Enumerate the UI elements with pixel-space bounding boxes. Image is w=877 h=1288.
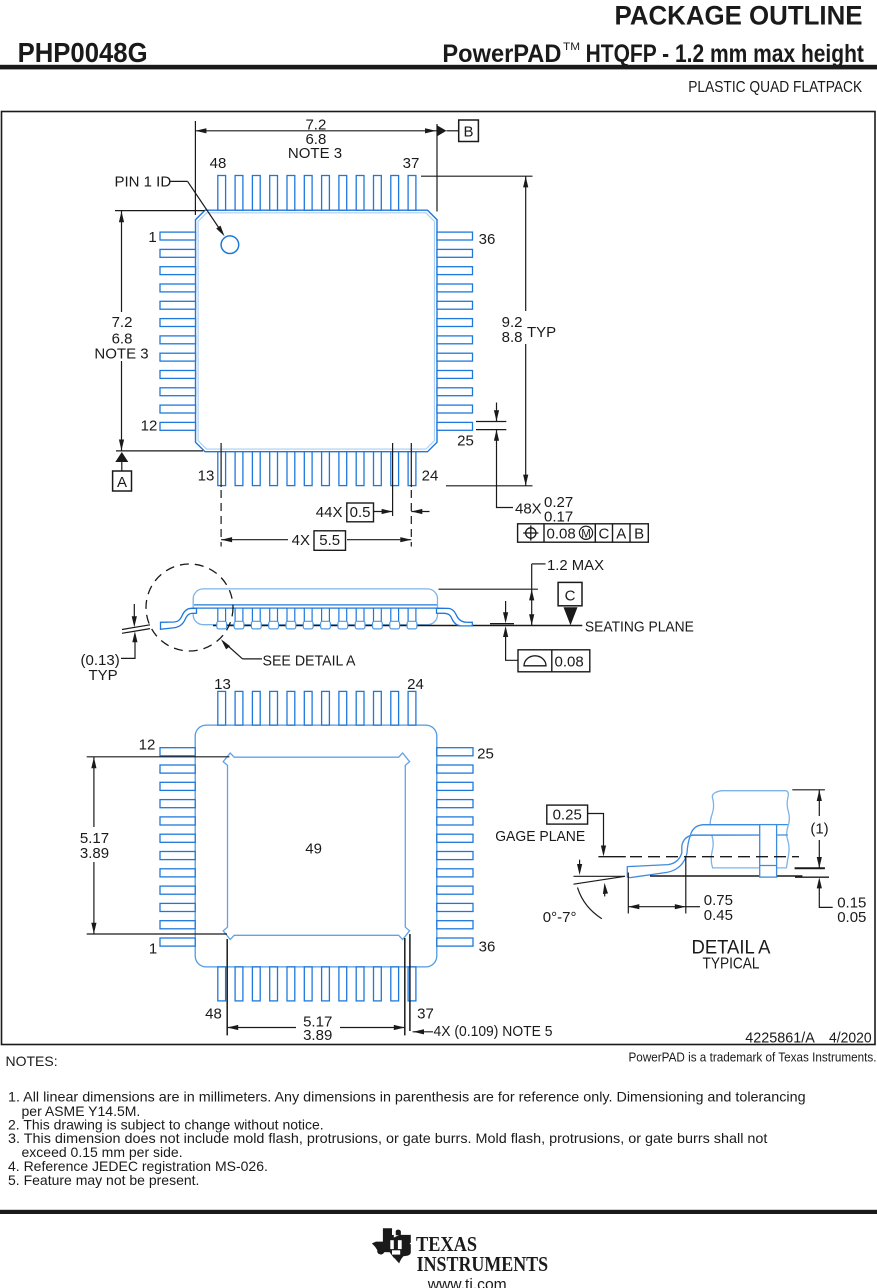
svg-text:12: 12 [141,418,158,435]
svg-text:1: 1 [148,229,156,246]
svg-text:PHP0048G: PHP0048G [18,37,148,68]
svg-text:C: C [598,525,609,542]
svg-text:M: M [581,528,591,540]
svg-text:NOTE 3: NOTE 3 [94,346,148,363]
svg-text:0.5: 0.5 [350,504,371,521]
svg-text:GAGE PLANE: GAGE PLANE [495,828,585,845]
svg-text:PowerPAD: PowerPAD [442,40,561,68]
svg-text:A: A [616,525,626,542]
svg-text:24: 24 [407,676,424,693]
svg-text:TYP: TYP [89,667,118,684]
svg-text:TYP: TYP [527,324,556,341]
svg-text:1: 1 [149,941,157,958]
svg-text:12: 12 [139,737,156,754]
svg-text:www.ti.com: www.ti.com [427,1277,507,1288]
svg-text:13: 13 [198,468,215,485]
svg-text:25: 25 [457,433,474,450]
svg-text:36: 36 [479,231,496,248]
svg-text:SEATING PLANE: SEATING PLANE [585,619,694,636]
svg-text:8.8: 8.8 [502,329,523,346]
svg-text:B: B [634,525,644,542]
svg-text:C: C [565,587,576,604]
svg-text:48: 48 [210,155,227,172]
svg-text:PACKAGE OUTLINE: PACKAGE OUTLINE [615,0,863,30]
svg-text:36: 36 [479,939,496,956]
svg-text:48X: 48X [515,501,542,518]
svg-text:44X: 44X [316,504,343,521]
svg-text:0.45: 0.45 [704,907,733,924]
svg-text:5. Feature may not be present.: 5. Feature may not be present. [8,1172,199,1188]
svg-text:3.89: 3.89 [80,845,109,862]
svg-text:1.2 MAX: 1.2 MAX [547,557,604,574]
svg-text:(1): (1) [810,820,828,837]
svg-text:TM: TM [563,41,580,53]
svg-text:PLASTIC QUAD FLATPACK: PLASTIC QUAD FLATPACK [688,79,863,96]
svg-text:7.2: 7.2 [112,314,133,331]
svg-text:4/2020: 4/2020 [829,1030,872,1047]
svg-text:48: 48 [205,1006,222,1023]
svg-text:PIN 1 ID: PIN 1 ID [115,174,172,191]
svg-text:25: 25 [477,746,494,763]
svg-text:5.5: 5.5 [319,532,340,549]
svg-text:SEE DETAIL A: SEE DETAIL A [263,653,356,670]
svg-text:3.89: 3.89 [303,1027,332,1044]
svg-text:0.05: 0.05 [837,909,866,926]
svg-text:4X (0.109) NOTE 5: 4X (0.109) NOTE 5 [434,1023,553,1040]
svg-text:NOTE 3: NOTE 3 [288,145,342,162]
svg-text:0°-7°: 0°-7° [543,909,577,926]
svg-text:0.08: 0.08 [547,525,576,542]
svg-text:NOTES:: NOTES: [6,1053,58,1069]
svg-text:37: 37 [417,1006,434,1023]
svg-text:24: 24 [422,468,439,485]
svg-text:PowerPAD is a trademark of Tex: PowerPAD is a trademark of Texas Instrum… [629,1051,877,1065]
svg-text:B: B [463,123,473,140]
svg-text:37: 37 [403,155,420,172]
svg-text:A: A [117,474,127,491]
svg-text:0.25: 0.25 [553,807,582,824]
svg-text:INSTRUMENTS: INSTRUMENTS [417,1252,548,1276]
svg-text:13: 13 [214,676,231,693]
svg-text:HTQFP - 1.2 mm max height: HTQFP - 1.2 mm max height [586,40,865,68]
svg-text:4225861/A: 4225861/A [745,1030,815,1047]
svg-text:TYPICAL: TYPICAL [703,956,760,973]
svg-text:0.08: 0.08 [555,654,584,671]
svg-text:49: 49 [305,841,322,858]
svg-text:4X: 4X [292,532,310,549]
